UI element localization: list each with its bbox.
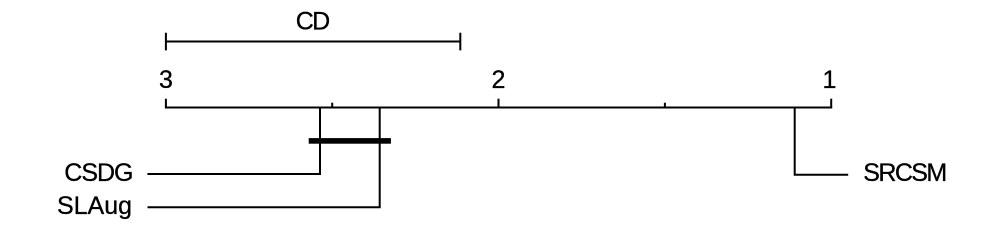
svg-text:SLAug: SLAug	[57, 192, 132, 220]
svg-text:3: 3	[159, 66, 173, 94]
svg-text:1: 1	[823, 66, 837, 94]
clique bar (no significant difference)	[309, 138, 391, 144]
svg-text:2: 2	[492, 66, 506, 94]
major tick 3	[165, 99, 167, 108]
wire CSDG connector	[147, 108, 320, 175]
CD interval bracket	[165, 33, 461, 51]
wire SLAug connector	[148, 108, 380, 208]
major tick 2	[498, 99, 500, 108]
svg-text:SRCSM: SRCSM	[863, 159, 945, 187]
wire SRCSM connector	[795, 108, 849, 175]
svg-text:CD: CD	[296, 7, 329, 35]
major tick 1	[830, 99, 832, 108]
minor tick 1.5	[664, 103, 666, 108]
minor tick 2.5	[331, 103, 333, 108]
svg-text:CSDG: CSDG	[64, 159, 132, 187]
axis line	[165, 107, 832, 109]
